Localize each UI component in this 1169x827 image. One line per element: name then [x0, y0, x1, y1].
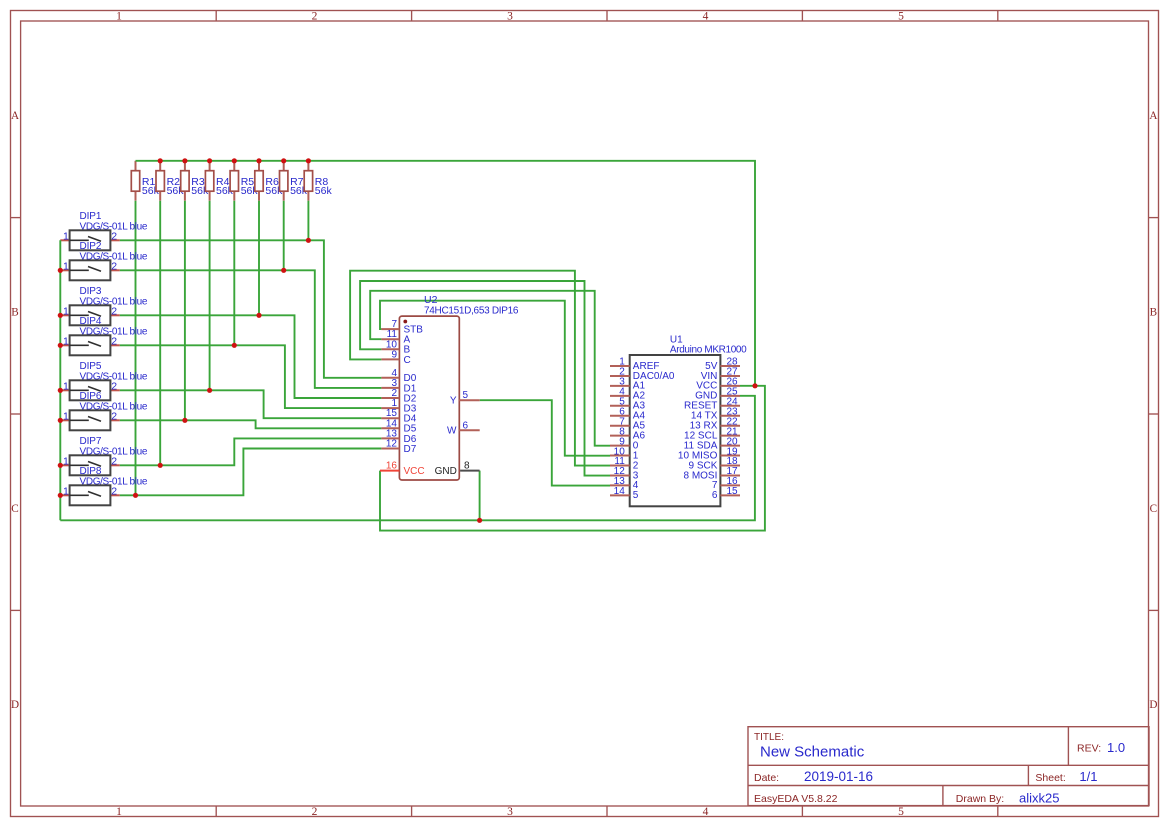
DIP switch DIP7 VDG/S-01L blue: [60, 436, 148, 475]
DIP switch DIP6 VDG/S-01L blue: [60, 391, 148, 430]
DIP switch DIP8 VDG/S-01L blue: [60, 466, 148, 505]
svg-text:U2: U2: [424, 294, 438, 306]
svg-text:Y: Y: [450, 396, 457, 407]
svg-text:C: C: [1150, 503, 1157, 515]
resistor R2 56k: [156, 161, 184, 201]
wire U2 A to U1 pin9: [370, 291, 610, 446]
wire U2 Y to U1 pin13: [480, 400, 610, 485]
svg-text:D7: D7: [404, 444, 417, 455]
wire DIP8 to U2 D7: [120, 449, 382, 496]
wire R6 pull-up drop: [258, 201, 260, 316]
resistor R7 56k: [280, 161, 308, 201]
svg-text:9: 9: [391, 349, 397, 360]
resistor R8 56k: [304, 161, 332, 201]
junction R4 on DIP5 line: [207, 388, 212, 393]
wire U2 STB to U1 pin10: [380, 301, 610, 456]
svg-text:3: 3: [507, 11, 513, 23]
junction R8 on DIP1 line: [306, 238, 311, 243]
svg-text:D: D: [11, 699, 19, 711]
svg-text:New Schematic: New Schematic: [760, 744, 865, 761]
svg-text:B: B: [11, 306, 18, 318]
op IC U2 74HC151D,653 DIP16 multiplexer: [380, 294, 519, 480]
wire DIP4 to U2 D3: [120, 345, 382, 408]
wire R5 pull-up drop: [233, 201, 235, 346]
wire R7 pull-up drop: [283, 201, 285, 271]
svg-text:GND: GND: [435, 466, 457, 477]
svg-text:2: 2: [312, 806, 318, 818]
junction R1 on DIP8 line: [133, 493, 138, 498]
microcontroller U1 Arduino MKR1000: [610, 335, 747, 507]
wire DIP2 to U2 D1: [120, 270, 382, 388]
wire GND left bus from DIP pins down: [59, 240, 61, 520]
wire VCC top rail from R1 to U1 side: [136, 161, 756, 386]
wire R1 pull-up drop: [135, 201, 137, 496]
svg-text:5: 5: [463, 390, 469, 401]
svg-text:Sheet:: Sheet:: [1035, 772, 1065, 784]
svg-text:2019-01-16: 2019-01-16: [804, 769, 873, 784]
svg-text:2: 2: [111, 485, 117, 497]
svg-text:C: C: [404, 355, 411, 366]
junction top rail at R8: [306, 158, 311, 163]
svg-text:1: 1: [116, 806, 122, 818]
svg-text:5: 5: [633, 490, 639, 501]
svg-text:1: 1: [63, 260, 69, 272]
svg-text:1: 1: [116, 11, 122, 23]
svg-text:REV:: REV:: [1077, 742, 1101, 754]
junction GND bus at DIP3 pin1: [58, 313, 63, 318]
svg-text:Date:: Date:: [754, 772, 779, 784]
wire VCC from U1 to bottom rail: [380, 386, 765, 531]
DIP switch DIP4 VDG/S-01L blue: [60, 316, 148, 355]
resistor R4 56k: [205, 161, 233, 201]
svg-text:1: 1: [63, 455, 69, 467]
svg-text:8: 8: [464, 460, 470, 471]
svg-text:1.0: 1.0: [1107, 740, 1125, 755]
resistor R1 56k: [131, 161, 159, 201]
junction top rail at R4: [207, 158, 212, 163]
wire R8 pull-up drop: [307, 201, 309, 241]
svg-text:12: 12: [386, 439, 398, 450]
junction GND bus at DIP7 pin1: [58, 463, 63, 468]
wire DIP7 to U2 D6: [120, 438, 382, 465]
resistor R6 56k: [255, 161, 283, 201]
svg-text:2: 2: [111, 335, 117, 347]
svg-text:1: 1: [63, 380, 69, 392]
svg-text:VCC: VCC: [404, 466, 425, 477]
svg-text:A: A: [1149, 110, 1157, 122]
wire DIP3 to U2 D2: [120, 315, 382, 398]
svg-text:2: 2: [312, 11, 318, 23]
svg-text:2: 2: [111, 455, 117, 467]
junction R7 on DIP2 line: [281, 268, 286, 273]
svg-text:1: 1: [63, 335, 69, 347]
wire R4 pull-up drop: [209, 201, 211, 391]
svg-text:2: 2: [111, 305, 117, 317]
svg-text:alixk25: alixk25: [1019, 790, 1059, 805]
svg-text:3: 3: [507, 806, 513, 818]
svg-text:1/1: 1/1: [1079, 769, 1097, 784]
svg-text:D: D: [1149, 699, 1157, 711]
svg-text:4: 4: [703, 806, 709, 818]
svg-text:4: 4: [703, 11, 709, 23]
svg-text:Drawn By:: Drawn By:: [956, 793, 1004, 805]
wire DIP5 to U2 D4: [120, 390, 382, 418]
DIP switch DIP2 VDG/S-01L blue: [60, 241, 148, 280]
DIP switch DIP1 VDG/S-01L blue: [60, 211, 148, 250]
title block: [748, 727, 1149, 806]
svg-text:Arduino MKR1000: Arduino MKR1000: [670, 345, 747, 356]
junction GND bus at DIP6 pin1: [58, 418, 63, 423]
svg-text:2: 2: [111, 260, 117, 272]
junction top rail at R6: [256, 158, 261, 163]
wire U2 B to U1 pin12: [360, 281, 610, 476]
junction top rail at R5: [232, 158, 237, 163]
wire U2 C to U1 pin11: [350, 271, 610, 466]
wire R3 pull-up drop: [184, 201, 186, 421]
svg-text:EasyEDA V5.8.22: EasyEDA V5.8.22: [754, 793, 838, 805]
svg-text:1: 1: [63, 410, 69, 422]
junction GND bus at DIP5 pin1: [58, 388, 63, 393]
svg-text:6: 6: [463, 420, 469, 431]
wire R2 pull-up drop: [159, 201, 161, 466]
junction GND bus at DIP2 pin1: [58, 268, 63, 273]
svg-text:14: 14: [614, 486, 626, 497]
svg-text:6: 6: [712, 490, 718, 501]
svg-text:1: 1: [63, 230, 69, 242]
svg-text:A: A: [11, 110, 19, 122]
svg-text:56k: 56k: [315, 185, 333, 197]
wire DIP6 to U2 D5: [120, 420, 382, 428]
svg-text:W: W: [447, 426, 457, 437]
junction VCC at U1 pin26: [752, 383, 757, 388]
DIP switch DIP5 VDG/S-01L blue: [60, 361, 148, 400]
junction GND bus at DIP8 pin1: [58, 493, 63, 498]
svg-text:2: 2: [111, 410, 117, 422]
wire DIP1 to U2 D0: [120, 240, 382, 377]
wire U2 GND drop: [479, 471, 481, 521]
resistor R3 56k: [181, 161, 209, 201]
junction R6 on DIP3 line: [256, 313, 261, 318]
junction R2 on DIP7 line: [158, 463, 163, 468]
svg-text:1: 1: [63, 305, 69, 317]
svg-text:2: 2: [111, 230, 117, 242]
DIP switch DIP3 VDG/S-01L blue: [60, 286, 148, 325]
junction GND rail at U2 GND: [477, 518, 482, 523]
junction GND bus at DIP4 pin1: [58, 343, 63, 348]
svg-text:15: 15: [727, 486, 739, 497]
wire GND bottom rail: [60, 396, 755, 521]
svg-text:5: 5: [898, 806, 904, 818]
svg-text:5: 5: [898, 11, 904, 23]
svg-text:2: 2: [111, 380, 117, 392]
junction top rail at R2: [158, 158, 163, 163]
svg-text:C: C: [11, 503, 18, 515]
svg-text:B: B: [1150, 306, 1157, 318]
svg-text:TITLE:: TITLE:: [754, 732, 784, 743]
resistor R5 56k: [230, 161, 258, 201]
svg-text:1: 1: [63, 485, 69, 497]
junction R5 on DIP4 line: [232, 343, 237, 348]
svg-text:16: 16: [386, 460, 398, 471]
junction R3 on DIP6 line: [182, 418, 187, 423]
svg-text:74HC151D,653 DIP16: 74HC151D,653 DIP16: [424, 306, 519, 317]
junction top rail at R3: [182, 158, 187, 163]
junction top rail at R7: [281, 158, 286, 163]
